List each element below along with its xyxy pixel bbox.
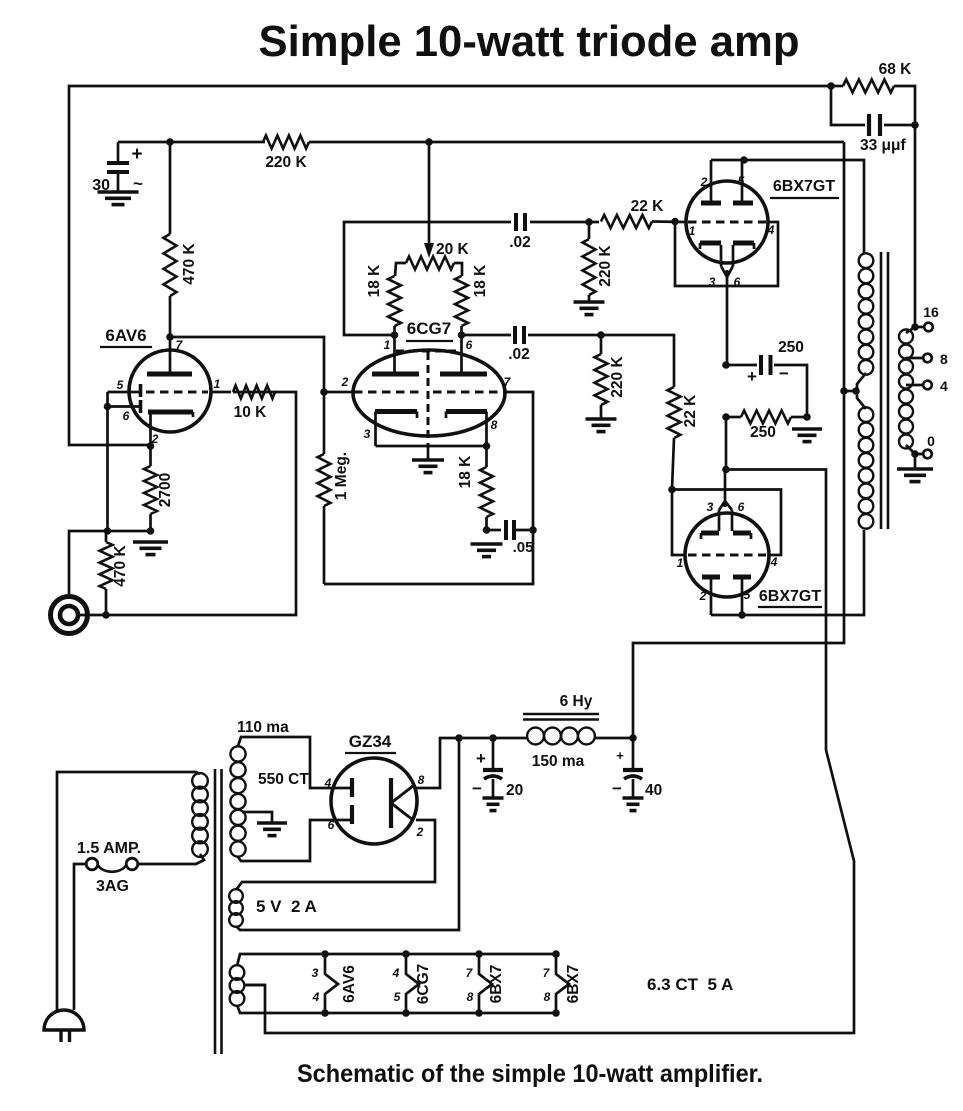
capacitor C2 .02 coupling upper (509, 213, 531, 251)
node grid load upper (585, 218, 593, 226)
svg-text:~: ~ (133, 174, 143, 193)
svg-text:1.5 AMP.: 1.5 AMP. (77, 840, 141, 857)
svg-text:250: 250 (778, 339, 804, 356)
capacitor C7 20uF (472, 738, 523, 799)
title text (259, 17, 800, 66)
V1 diode plates pins 5,6 (104, 378, 141, 531)
node V3 plates (740, 156, 748, 164)
node V4 plates (738, 611, 746, 619)
wire 20K pot wiper from B+ (424, 142, 434, 258)
V2 heater dashed (396, 351, 458, 459)
V3 grid box wire (675, 222, 778, 287)
ground below R12 (586, 419, 617, 432)
svg-text:1: 1 (689, 224, 696, 238)
svg-text:4: 4 (767, 223, 775, 237)
wire feedback rail from 16-ohm tap to V1 cathode (69, 86, 831, 445)
ground below R16 (792, 429, 822, 442)
svg-text:5: 5 (394, 990, 401, 1004)
wire B+ rail mid segment (311, 141, 844, 144)
wire V1 plate to V2 grid A (170, 337, 324, 392)
label GZ34 (345, 732, 396, 753)
wire HV center tap (242, 812, 272, 822)
wire V2 grid B return loop (324, 392, 533, 584)
svg-text:3: 3 (709, 275, 716, 289)
svg-text:4: 4 (770, 555, 778, 569)
transformer T2 primary CT jog (857, 373, 866, 409)
wire heater bus top (237, 954, 556, 966)
label 6CG7 (406, 319, 453, 341)
svg-text:+: + (476, 749, 486, 768)
ground at 0 tap (897, 454, 933, 482)
wire V4 plates to OT primary bottom (711, 530, 864, 615)
svg-text:.02: .02 (508, 346, 530, 363)
svg-text:22 K: 22 K (682, 394, 699, 428)
V1 pin 7 number (176, 338, 184, 352)
AC plug (44, 1010, 84, 1042)
transformer T1 5V winding (229, 889, 243, 927)
V4 cathode bars pins 3,6 (701, 470, 751, 540)
svg-text:6: 6 (466, 338, 473, 352)
wire V3 plates to OT primary top (744, 160, 864, 254)
V5 filament (391, 773, 425, 839)
node V2 plate B (458, 331, 466, 339)
svg-text:3AG: 3AG (96, 878, 129, 895)
tube V4 6BX7GT bottom envelope (685, 513, 769, 597)
node input jack tee (102, 611, 110, 619)
ground below C7 (483, 798, 504, 811)
svg-text:+: + (131, 144, 142, 165)
svg-text:8: 8 (467, 990, 474, 1004)
svg-text:Simple 10-watt triode amp: Simple 10-watt triode amp (259, 17, 800, 66)
svg-text:2: 2 (341, 375, 349, 389)
svg-text:6: 6 (328, 818, 335, 832)
input jack J1 (51, 597, 88, 634)
node cathode bus tee (722, 466, 730, 474)
svg-text:470 K: 470 K (181, 243, 198, 285)
wire 4 ohm tap (906, 378, 948, 394)
svg-text:4: 4 (312, 990, 320, 1004)
wire V1 grid out (211, 391, 231, 394)
ground below C8 (623, 798, 644, 811)
resistor R16 250 cathode bias (726, 411, 807, 442)
svg-text:6BX7GT: 6BX7GT (773, 178, 835, 195)
V1 cathode (pin 2) (148, 377, 221, 446)
wire V3 cathode down (726, 277, 729, 365)
terminal 16 ohm (923, 304, 939, 331)
V1 plate (pin 7) (147, 337, 192, 374)
svg-text:6.3 CT 5 A: 6.3 CT 5 A (647, 975, 733, 994)
svg-text:6BX7GT: 6BX7GT (759, 588, 821, 605)
svg-text:110 ma: 110 ma (237, 719, 289, 736)
V2 pin numbers top (384, 338, 473, 352)
svg-text:2: 2 (416, 825, 424, 839)
node V3 grid (671, 218, 679, 226)
transformer T1 heater winding (230, 965, 245, 1006)
resistor R3 10K grid stopper (233, 386, 277, 422)
capacitor C4 .02 coupling lower (462, 326, 602, 363)
svg-text:6CG7: 6CG7 (415, 964, 432, 1005)
wire B+ node to choke (459, 737, 527, 740)
wire V2 grid A stub (324, 391, 354, 394)
wire heater center tap stub (244, 984, 265, 987)
transformer T2 primary winding lower (859, 407, 874, 528)
node B+ raw (455, 734, 463, 742)
tube V2 6CG7 envelope (353, 350, 505, 436)
ground at V1 cathode network (133, 542, 168, 555)
svg-text:6 Hy: 6 Hy (560, 693, 593, 710)
svg-text:3: 3 (312, 966, 319, 980)
node B+ at 470K (166, 138, 174, 146)
ground HV CT (257, 823, 287, 836)
capacitor C1 30uF filter (92, 142, 143, 194)
wire 0 tap (906, 433, 935, 458)
svg-text:150 ma: 150 ma (532, 753, 585, 770)
wire 5V winding return (236, 738, 459, 930)
wire feedback to 16 tap (914, 125, 917, 327)
svg-text:+: + (616, 748, 624, 763)
resistor R12 220K grid lower (595, 335, 627, 419)
V2 pin numbers bottom (364, 418, 498, 441)
node V2 cathode B (483, 442, 491, 450)
node V1 plate (166, 333, 174, 341)
svg-text:6AV6: 6AV6 (105, 326, 146, 345)
V1 grid (pin 1) dashed (146, 391, 208, 394)
svg-text:Schematic of the simple 10-wat: Schematic of the simple 10-watt amplifie… (297, 1060, 763, 1088)
wire V5 pin 8 to B+ node (416, 738, 459, 788)
V2 plate bars (372, 335, 487, 374)
resistor R5 470K input load (100, 531, 130, 614)
V4 grid dashes (677, 555, 778, 570)
wire B+ drop to PS (633, 142, 844, 738)
ground below C3 (471, 544, 503, 557)
resistor R2 470K V1 plate load (164, 142, 199, 337)
node 2700 bottom (147, 527, 155, 535)
svg-text:6BX7: 6BX7 (488, 965, 505, 1004)
label 550 CT (258, 771, 309, 788)
wire cathode bus (246, 417, 854, 1033)
V2 cathode join wire (376, 445, 487, 448)
capacitor C8 40uF (612, 738, 662, 799)
svg-text:+: + (747, 367, 757, 386)
node 18K bottom (483, 526, 491, 534)
svg-text:1: 1 (677, 556, 684, 570)
wire B+ rail left segment (118, 141, 261, 144)
V2 pin numbers mid (341, 375, 512, 389)
svg-text:6BX7: 6BX7 (565, 965, 582, 1004)
svg-text:470 K: 470 K (112, 545, 129, 587)
node 33uuf right (911, 121, 919, 129)
svg-text:8: 8 (491, 418, 498, 432)
wire V2 plate A to C2 (344, 222, 511, 335)
wire T1 primary bottom to fuse (138, 854, 204, 864)
ground below R10 (574, 302, 605, 315)
capacitor C3 .05 (487, 520, 534, 556)
wire T2 center tap (844, 390, 857, 393)
label 6AV6 (100, 326, 152, 347)
wire V5 pin 2 to 5V winding (236, 820, 435, 890)
svg-text:220 K: 220 K (265, 154, 307, 171)
svg-text:18 K: 18 K (457, 455, 474, 489)
resistor R8 18K right (455, 264, 489, 335)
heater V4 6BX7 (543, 950, 582, 1017)
wire HV top to GZ34 pin 4 (238, 737, 352, 788)
svg-text:20: 20 (506, 782, 523, 799)
svg-text:250: 250 (750, 424, 776, 441)
label 6BX7GT bottom (758, 588, 822, 607)
V3 grid dashes (688, 222, 775, 238)
node B+ at 20K pot arrow (425, 138, 433, 146)
tube V3 6BX7GT top envelope (686, 181, 768, 263)
svg-text:20 K: 20 K (436, 241, 470, 258)
wire HV bottom to GZ34 pin 6 (238, 820, 352, 861)
label 5V 2A (256, 897, 317, 916)
transformer T2 core (881, 252, 888, 529)
V4 plate bars pins 2,5 (699, 577, 751, 615)
svg-text:5: 5 (738, 174, 745, 188)
svg-text:8: 8 (418, 773, 425, 787)
svg-text:8: 8 (544, 990, 551, 1004)
svg-text:33 μμf: 33 μμf (860, 137, 907, 154)
svg-text:8: 8 (940, 351, 948, 367)
svg-text:1: 1 (214, 377, 221, 391)
svg-text:.02: .02 (509, 234, 531, 251)
V3 plate bars pins 2,5 (700, 160, 753, 203)
svg-text:4: 4 (392, 966, 400, 980)
svg-text:−: − (472, 779, 482, 798)
wire 8 ohm tap (906, 351, 948, 367)
node T2 CT on B+ line (840, 387, 860, 395)
svg-text:4: 4 (940, 378, 948, 394)
svg-text:40: 40 (645, 782, 662, 799)
svg-text:1 Meg.: 1 Meg. (333, 452, 350, 500)
svg-text:2: 2 (699, 589, 707, 603)
svg-text:6: 6 (734, 275, 741, 289)
transformer T1 primary winding (192, 773, 208, 857)
resistor R10 220K grid upper (583, 222, 615, 302)
node V4 grid (668, 486, 676, 494)
svg-text:5: 5 (744, 588, 751, 602)
tube V1 6AV6 envelope (129, 350, 211, 432)
node cathode C5 (722, 361, 730, 369)
wire 16 ohm tap (906, 327, 924, 333)
node C7 top (489, 734, 497, 742)
choke L1 6 Hy (523, 693, 599, 770)
svg-text:6AV6: 6AV6 (341, 965, 358, 1003)
svg-text:3: 3 (707, 500, 714, 514)
V3 cathode bars pins 3,6 (700, 243, 754, 289)
svg-text:16: 16 (923, 304, 939, 320)
node 16 tap (911, 323, 919, 331)
heater V2 6CG7 (392, 950, 432, 1017)
wire heater bus bottom (237, 1005, 556, 1013)
svg-text:5 V 2 A: 5 V 2 A (256, 897, 317, 916)
svg-text:18 K: 18 K (472, 264, 489, 298)
wire C4 to 22K lower (601, 335, 674, 387)
svg-text:18 K: 18 K (366, 264, 383, 298)
transformer T2 primary winding upper (859, 253, 874, 374)
potentiometer R9 20K hum balance (395, 241, 470, 276)
node 68K left (827, 82, 835, 90)
svg-text:0: 0 (927, 433, 935, 449)
svg-text:−: − (612, 779, 622, 798)
resistor R11 22K upper (601, 198, 686, 228)
svg-text:220 K: 220 K (609, 356, 626, 398)
resistor R15 68K feedback (831, 61, 915, 125)
transformer T1 core (215, 769, 222, 1054)
svg-text:10 K: 10 K (234, 404, 268, 421)
fuse F1 1.5A 3AG (74, 840, 141, 1010)
transformer T1 HV secondary winding (230, 746, 245, 856)
svg-text:.05: .05 (513, 539, 534, 556)
ground V2 heater (412, 460, 444, 473)
wire ground bus to jack shell (69, 531, 151, 596)
resistor R7 18K left (366, 264, 401, 335)
svg-text:4: 4 (324, 776, 332, 790)
node C8 top (629, 734, 637, 742)
wire C2 to R11 (530, 221, 599, 224)
V4 grid box wire (672, 490, 781, 556)
node cathode R16 (722, 413, 730, 421)
capacitor C5 250uF cathode bypass (726, 339, 807, 417)
node V2 grid A (320, 388, 328, 396)
svg-text:GZ34: GZ34 (349, 732, 392, 751)
resistor R14 18K cathode B load (457, 446, 493, 530)
heater V3 6BX7 (466, 950, 505, 1017)
V2 cathode bars (375, 412, 487, 447)
ground below C1 (98, 192, 139, 205)
heater V1 6AV6 (312, 950, 358, 1017)
node V1 cathode (147, 442, 155, 450)
svg-text:3: 3 (364, 427, 371, 441)
tube V5 GZ34 envelope (331, 758, 417, 844)
wire choke to C8 (595, 737, 633, 740)
resistor R6 1Meg grid leak (318, 392, 351, 584)
wire jack tip to 10K (79, 392, 296, 615)
node C3 to grid loop (529, 526, 537, 534)
resistor R4 2700 cathode bias (144, 446, 174, 531)
svg-text:6: 6 (123, 409, 130, 423)
label 6.3CT 5A (647, 975, 733, 994)
svg-text:6CG7: 6CG7 (407, 319, 451, 338)
svg-text:2: 2 (700, 175, 708, 189)
svg-text:6: 6 (738, 500, 745, 514)
label 110 ma (237, 719, 289, 736)
transformer T2 secondary winding (899, 330, 913, 449)
svg-text:5: 5 (117, 378, 124, 392)
wire T1 primary top to plug (57, 772, 200, 1012)
caption text (297, 1060, 763, 1088)
resistor R1 220K plate feed (261, 136, 311, 172)
capacitor C6 33uuf feedback (831, 86, 915, 154)
svg-text:2700: 2700 (157, 473, 174, 507)
svg-text:22 K: 22 K (631, 198, 665, 215)
label 6BX7GT top (770, 178, 839, 198)
node R16 right (803, 413, 811, 421)
V2 grid dashes (354, 391, 504, 394)
node diode return (104, 527, 112, 535)
resistor R13 22K lower (668, 387, 700, 489)
svg-text:68 K: 68 K (879, 61, 913, 78)
svg-text:550 CT: 550 CT (258, 771, 309, 788)
svg-text:220 K: 220 K (597, 245, 614, 287)
node grid load lower (597, 331, 605, 339)
node V2 plate A (391, 331, 399, 339)
svg-text:1: 1 (384, 338, 391, 352)
svg-text:−: − (779, 364, 789, 383)
V5 anode bars pins 4,6 (324, 776, 352, 832)
